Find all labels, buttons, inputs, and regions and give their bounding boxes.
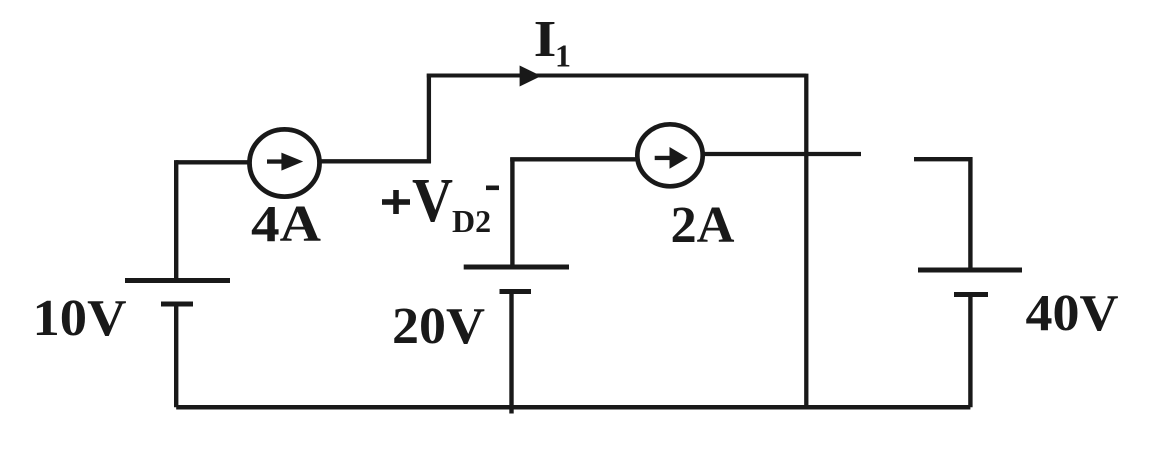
current source I=4A circle	[250, 129, 320, 196]
wire right vertical (x=806 from top net to bottom net)	[804, 74, 808, 408]
wire V_D2 branch vertical down to 20V battery	[510, 158, 514, 268]
label I1	[534, 11, 571, 74]
wire top horizontal (I1 net)	[427, 74, 807, 78]
svg-text:10V: 10V	[33, 290, 127, 347]
wire bottom horizontal net	[176, 405, 970, 410]
wire left horizontal from node A to current source 4A	[176, 160, 250, 164]
current source I=2A circle	[637, 124, 702, 186]
wire 40V branch vertical down to battery	[968, 157, 972, 270]
svg-text:I: I	[534, 11, 557, 68]
svg-text:40V: 40V	[1026, 285, 1119, 342]
label +VD2- : plus sign	[382, 190, 410, 214]
battery 20V short plate	[500, 289, 532, 294]
wire from V_D2 node to current source 2A	[510, 157, 637, 161]
wire from 4A source to riser	[319, 159, 431, 163]
svg-text:D2: D2	[452, 203, 491, 239]
wire from 40V battery minus plate down to bottom net	[968, 295, 972, 408]
current source 2A arrow	[655, 147, 688, 169]
wire riser up to top net	[427, 74, 431, 163]
battery 40V short plate	[954, 292, 988, 297]
wire left vertical lower (10V battery to bottom net)	[174, 304, 178, 407]
svg-text:1: 1	[555, 38, 571, 74]
battery 20V long plate	[464, 265, 569, 270]
label +VD2- : minus superscript	[486, 186, 499, 191]
wire from 2A source crossing right vertical, open end	[703, 152, 861, 156]
wire left vertical upper (x=176 down to 10V battery top plate)	[174, 160, 178, 280]
arrow for current I1	[520, 66, 542, 87]
svg-text:4A: 4A	[251, 196, 321, 253]
svg-text:2A: 2A	[671, 197, 735, 254]
battery 10V short plate	[161, 302, 193, 307]
svg-text:V: V	[412, 167, 453, 235]
battery 10V long plate	[125, 278, 230, 283]
battery 40V long plate	[918, 268, 1022, 273]
wire from 20V battery minus plate down past bottom net	[509, 292, 513, 414]
current source 4A arrow	[267, 153, 303, 171]
wire 40V branch top horizontal (open left end)	[914, 157, 972, 161]
svg-text:20V: 20V	[392, 298, 485, 355]
